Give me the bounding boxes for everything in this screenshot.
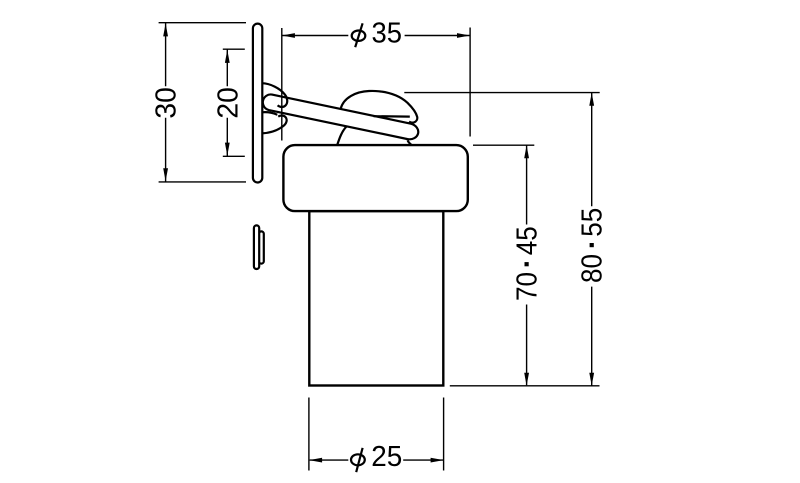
svg-text:20: 20 <box>212 87 244 119</box>
svg-text:80: 80 <box>577 254 609 283</box>
svg-text:70: 70 <box>512 272 544 301</box>
svg-text:25: 25 <box>371 441 402 473</box>
svg-text:45: 45 <box>512 226 544 255</box>
svg-text:35: 35 <box>372 17 403 49</box>
svg-text:30: 30 <box>151 87 183 119</box>
svg-text:55: 55 <box>577 208 609 237</box>
